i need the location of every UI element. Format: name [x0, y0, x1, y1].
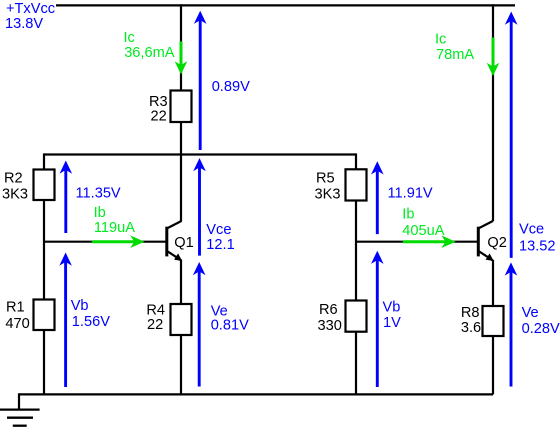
- transistor Q2 emitter arrowhead: [486, 253, 494, 261]
- svg-text:1.56V: 1.56V: [72, 314, 110, 330]
- transistor Q2 collector stroke: [479, 221, 494, 229]
- svg-text:Vce: Vce: [206, 222, 231, 238]
- voltage arrow 0.89V shaft: [199, 19, 202, 150]
- wire R2 bottom through Q1 base node to R1 top: [43, 200, 45, 300]
- svg-text:Vb: Vb: [383, 300, 401, 316]
- voltage arrow 0.89V head: [194, 11, 207, 24]
- transistor Q1 base bar: [165, 227, 168, 257]
- wire Q2 base wire: [356, 241, 478, 243]
- svg-text:13.52: 13.52: [519, 238, 556, 254]
- svg-text:R3: R3: [149, 94, 168, 110]
- voltage arrow Ve1 shaft: [198, 270, 201, 387]
- svg-text:R8: R8: [461, 305, 480, 321]
- svg-text:22: 22: [151, 109, 167, 125]
- wire rail to R3 top: [180, 4, 182, 91]
- svg-text:36,6mA: 36,6mA: [124, 45, 175, 61]
- wire ground rail: [19, 393, 493, 395]
- svg-text:119uA: 119uA: [94, 220, 135, 236]
- voltage arrow Ve2 head: [505, 262, 518, 275]
- wire R6 bottom to ground rail: [355, 332, 357, 395]
- wire R3 bottom to Q1 collector: [180, 122, 182, 221]
- transistor Q1 emitter stroke: [167, 251, 181, 260]
- svg-text:Vce: Vce: [519, 222, 544, 238]
- current arrow Ib1 shaft: [92, 240, 136, 243]
- wire R5 bottom through Q2 base node to R6 top: [355, 201, 357, 302]
- wire R1 bottom to ground rail: [43, 330, 45, 394]
- voltage arrow Vce2 head: [505, 12, 518, 25]
- wire bus to R2 top: [43, 153, 45, 170]
- svg-text:Ib: Ib: [94, 205, 106, 221]
- wire Q1 emitter to R4 top: [180, 260, 182, 305]
- current arrow Ib2 head: [441, 235, 455, 248]
- voltage arrow Vb2 shaft: [376, 259, 379, 387]
- svg-text:Q2: Q2: [487, 235, 506, 251]
- wire collector node feedback bus: [44, 153, 356, 155]
- voltage arrow Vce1 head: [193, 158, 206, 171]
- svg-text:11.91V: 11.91V: [388, 186, 433, 202]
- ground bar 1: [0, 408, 40, 410]
- current arrow Ib2 shaft: [403, 240, 447, 243]
- resistor R2: [34, 170, 55, 201]
- ground bar 3: [13, 425, 27, 427]
- resistor R1: [34, 300, 55, 331]
- voltage arrow 11.35V head: [60, 161, 73, 174]
- svg-text:1V: 1V: [383, 315, 401, 331]
- svg-text:Ic: Ic: [124, 30, 135, 46]
- svg-text:R6: R6: [319, 302, 338, 318]
- svg-text:R5: R5: [316, 171, 335, 187]
- resistor R4: [171, 304, 192, 335]
- svg-text:12.1: 12.1: [206, 237, 234, 253]
- svg-text:3K3: 3K3: [2, 187, 28, 203]
- resistor R5: [346, 169, 367, 200]
- transistor Q2 emitter stroke: [479, 251, 493, 260]
- svg-text:3.6: 3.6: [461, 320, 481, 336]
- wire R4 bottom to ground rail: [180, 335, 182, 394]
- svg-text:Ib: Ib: [402, 207, 414, 223]
- voltage arrow Vb1 head: [59, 253, 72, 266]
- wire top supply rail: [56, 4, 515, 6]
- wire Q1 base wire: [44, 241, 167, 243]
- voltage arrow Ve1 head: [193, 262, 206, 275]
- svg-text:3K3: 3K3: [315, 187, 341, 203]
- svg-text:R4: R4: [146, 302, 165, 318]
- wire R8 bottom to ground rail: [492, 336, 494, 394]
- svg-text:405uA: 405uA: [402, 223, 444, 239]
- resistor R8: [483, 306, 504, 336]
- voltage arrow 11.91V shaft: [376, 169, 379, 234]
- voltage arrow 11.91V head: [371, 161, 384, 174]
- ground bar 2: [7, 417, 33, 419]
- svg-text:11.35V: 11.35V: [76, 186, 121, 202]
- transistor Q1 collector stroke: [167, 221, 182, 229]
- voltage arrow Vb1 shaft: [64, 261, 67, 388]
- voltage arrow 11.35V shaft: [64, 169, 67, 234]
- svg-text:Ve: Ve: [522, 305, 539, 321]
- voltage arrow Vb2 head: [371, 251, 384, 264]
- svg-text:0.81V: 0.81V: [211, 317, 249, 333]
- transistor Q1 emitter arrowhead: [174, 253, 182, 261]
- current arrow Ic2 shaft: [492, 38, 495, 69]
- wire bus to R5 top: [355, 153, 357, 170]
- svg-text:R1: R1: [6, 300, 25, 316]
- voltage arrow Vce1 shaft: [198, 166, 201, 256]
- svg-text:78mA: 78mA: [436, 47, 474, 63]
- svg-text:470: 470: [5, 316, 29, 332]
- voltage arrow Ve2 shaft: [510, 270, 513, 386]
- resistor R3: [171, 91, 192, 123]
- transistor Q2 base bar: [477, 227, 480, 257]
- svg-text:13.8V: 13.8V: [5, 16, 43, 32]
- resistor R6: [346, 301, 367, 332]
- svg-text:Ic: Ic: [435, 32, 446, 48]
- current arrow Ic2 head: [487, 63, 500, 76]
- svg-text:Q1: Q1: [174, 235, 193, 251]
- ground stub: [18, 393, 20, 409]
- current arrow Ib1 head: [130, 235, 144, 248]
- svg-text:0.28V: 0.28V: [522, 321, 560, 337]
- svg-text:330: 330: [318, 318, 342, 334]
- current arrow Ic1 shaft: [180, 41, 183, 67]
- current arrow Ic1 head: [175, 61, 188, 74]
- wire rail to Q2 collector: [492, 4, 494, 221]
- svg-text:Vb: Vb: [71, 298, 89, 314]
- voltage arrow Vce2 shaft: [510, 20, 513, 258]
- svg-text:+TxVcc: +TxVcc: [6, 1, 55, 17]
- wire Q2 emitter to R8 top: [492, 260, 494, 307]
- svg-text:22: 22: [147, 317, 163, 333]
- svg-text:R2: R2: [4, 171, 23, 187]
- svg-text:0.89V: 0.89V: [212, 79, 250, 95]
